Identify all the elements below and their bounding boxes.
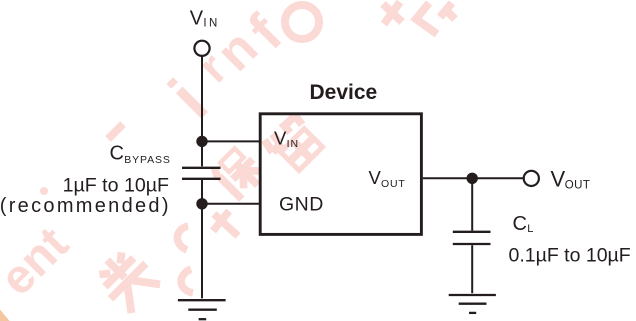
wire: CL bottom plate to ground <box>471 245 473 293</box>
label VOUT (right terminal) <box>551 166 591 191</box>
watermark small dash <box>108 124 123 139</box>
svg-text:Device: Device <box>310 81 378 104</box>
watermark char 留 <box>262 112 324 174</box>
terminal VOUT (open circle) <box>524 171 539 186</box>
terminal VIN (open circle) <box>194 41 209 56</box>
svg-text:V: V <box>190 8 204 30</box>
svg-text:IN: IN <box>287 138 300 150</box>
watermark char 比 <box>177 211 238 293</box>
watermark letter o <box>285 5 319 39</box>
svg-text:1µF to 10µF: 1µF to 10µF <box>63 174 169 196</box>
svg-text:C: C <box>513 213 527 235</box>
watermark char fragment X <box>383 2 402 24</box>
label CL <box>513 213 534 235</box>
wire: node B down to ground <box>201 204 203 298</box>
svg-text:(recommended): (recommended) <box>0 195 171 217</box>
wire: node B to device GND pin <box>202 203 260 205</box>
label CBYPASS <box>110 143 171 166</box>
pin label VOUT <box>369 167 406 190</box>
watermark i-dot speck <box>40 187 48 195</box>
node C (junction dot) <box>467 173 478 184</box>
wire: node A to device VIN pin <box>202 140 260 142</box>
node B (junction dot) <box>196 198 207 209</box>
svg-text:0.1µF to 10µF: 0.1µF to 10µF <box>509 245 631 267</box>
svg-text:V: V <box>369 167 382 188</box>
label VIN (top terminal) <box>190 8 220 30</box>
watermark <box>0 2 455 321</box>
watermark char 切 (partial) <box>416 3 455 34</box>
svg-text:V: V <box>551 166 566 191</box>
capacitor CBYPASS plates <box>182 168 221 179</box>
svg-text:ent: ent <box>0 217 79 305</box>
wire: device VOUT pin to VOUT terminal <box>423 177 524 179</box>
svg-text:GND: GND <box>279 194 324 216</box>
watermark latin letters <box>0 3 294 306</box>
watermark char 类 <box>89 242 163 316</box>
svg-text:L: L <box>527 223 533 235</box>
svg-text:BYPASS: BYPASS <box>124 154 171 166</box>
svg-text:IN: IN <box>203 17 219 29</box>
ground (left) <box>178 300 226 319</box>
svg-text:V: V <box>274 127 287 148</box>
wire: node C down to CL top plate <box>471 178 473 230</box>
pin label VIN <box>274 127 299 150</box>
ground (right) <box>449 295 496 313</box>
svg-text:OUT: OUT <box>565 179 590 191</box>
watermark corner triangle <box>0 310 10 321</box>
svg-text:C: C <box>110 143 124 165</box>
capacitor CL plates <box>453 232 491 244</box>
device U1 (box) <box>260 114 421 235</box>
watermark char 保 <box>211 145 268 202</box>
svg-text:OUT: OUT <box>381 178 406 190</box>
wire: VIN terminal down to node A <box>201 57 203 142</box>
schematic ink <box>202 57 524 299</box>
node A (junction dot) <box>196 136 207 147</box>
wire: node A down to CBYPASS top plate <box>201 141 203 166</box>
wire: CBYPASS bottom plate to node B <box>201 180 203 204</box>
